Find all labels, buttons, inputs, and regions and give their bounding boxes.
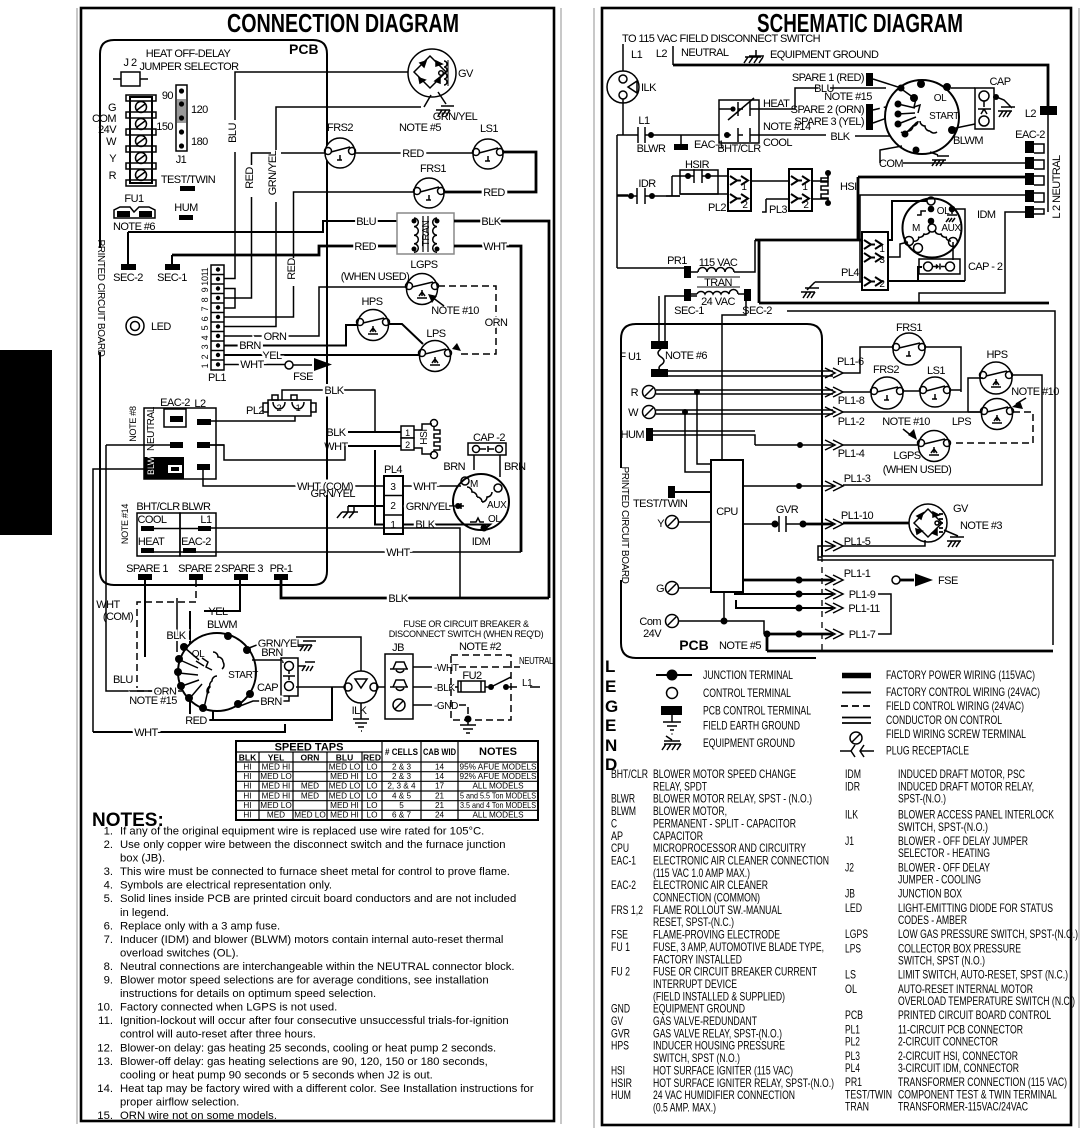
bracket PL1-9 to PL1-7: [878, 594, 891, 634]
svg-text:CAP: CAP: [257, 682, 278, 694]
svg-text:AUX: AUX: [941, 223, 961, 234]
svg-text:LPS: LPS: [426, 328, 445, 340]
wire CAP to ILK: [296, 686, 385, 688]
capacitor CAP-2 (left): [443, 432, 526, 477]
FU1 fuse: [113, 193, 155, 233]
inducer motor IDM (left): [453, 474, 509, 548]
transformer TRAN: [397, 213, 454, 254]
svg-text:LPS: LPS: [952, 416, 971, 428]
svg-text:92% AFUE MODELS: 92% AFUE MODELS: [460, 772, 537, 781]
svg-text:PL3: PL3: [769, 204, 787, 216]
jumper J2: [113, 57, 148, 86]
wire WHT BLWM bottom: [93, 724, 285, 739]
svg-text:overload switches (OL).: overload switches (OL).: [120, 947, 239, 959]
svg-text:NOTE #2: NOTE #2: [459, 641, 501, 653]
svg-text:6 & 7: 6 & 7: [392, 811, 412, 820]
svg-text:MED LO: MED LO: [260, 801, 291, 810]
svg-text:WHT: WHT: [134, 727, 158, 739]
svg-text:1: 1: [741, 182, 747, 193]
svg-text:21: 21: [435, 791, 445, 800]
svg-text:FRS2: FRS2: [327, 122, 353, 134]
svg-text:24: 24: [435, 811, 445, 820]
svg-text:Solid lines inside PCB are pri: Solid lines inside PCB are printed circu…: [120, 893, 516, 905]
legend field wiring screw terminal symbol: [850, 732, 862, 744]
pressure switch LPS: [419, 328, 452, 372]
svg-text:4.: 4.: [104, 880, 113, 892]
svg-text:GRN/YEL: GRN/YEL: [311, 488, 356, 500]
svg-text:FU2: FU2: [462, 670, 482, 682]
wire HSI line to pad1: [755, 177, 1025, 240]
svg-text:8: 8: [200, 297, 210, 302]
wire BRN BLWM lower to CAP: [240, 696, 289, 708]
svg-text:TRANSFORMER-115VAC/24VAC: TRANSFORMER-115VAC/24VAC: [898, 1100, 1028, 1114]
svg-text:OL: OL: [488, 514, 501, 525]
svg-text:JB: JB: [392, 642, 404, 654]
svg-text:OVERLOAD TEMPERATURE SWITCH (N: OVERLOAD TEMPERATURE SWITCH (N.C.): [898, 994, 1075, 1008]
PCB outline (left): [100, 40, 327, 585]
svg-text:5 and 5.5 Ton MODELS: 5 and 5.5 Ton MODELS: [460, 791, 536, 800]
svg-text:BLK: BLK: [830, 131, 850, 143]
svg-text:RED: RED: [402, 148, 424, 160]
svg-text:Symbols are electrical represe: Symbols are electrical representation on…: [120, 880, 332, 892]
svg-text:BRN: BRN: [504, 461, 526, 473]
SEC-2 terminal: [113, 232, 143, 284]
pressure switch LGPS: [341, 259, 439, 305]
svg-text:1: 1: [390, 520, 396, 531]
svg-text:120: 120: [191, 104, 208, 116]
wire FRS1 right down: [926, 347, 961, 392]
svg-text:# CELLS: # CELLS: [385, 747, 418, 757]
svg-text:MED LO: MED LO: [329, 791, 360, 800]
svg-text:SWITCH, SPST-(N.O.): SWITCH, SPST-(N.O.): [898, 820, 988, 834]
svg-text:CAP - 2: CAP - 2: [968, 261, 1003, 273]
wire PL1-10 to GV: [843, 522, 909, 525]
svg-text:BLK: BLK: [388, 593, 408, 605]
wire SEC-1 down pair: [659, 296, 697, 342]
wire BLK PL4 pin1 to IDM: [375, 450, 490, 531]
svg-text:24V: 24V: [643, 628, 662, 640]
svg-text:PL2: PL2: [708, 202, 726, 214]
flame rollout switch FRS2: [325, 122, 356, 168]
wire PL1-6 to FRS1: [843, 347, 892, 373]
svg-text:SPARE 2: SPARE 2: [178, 563, 220, 575]
svg-text:MED LO: MED LO: [260, 772, 291, 781]
svg-text:1: 1: [296, 403, 301, 413]
legend equipment ground symbol: [662, 736, 681, 750]
svg-text:1.: 1.: [104, 826, 113, 838]
dashed spare2 to motor: [873, 104, 898, 110]
svg-text:L2: L2: [1025, 108, 1037, 120]
svg-text:HUM: HUM: [621, 429, 645, 441]
screw terminal W: [628, 406, 833, 420]
svg-text:FSE: FSE: [938, 575, 958, 587]
svg-text:1: 1: [405, 428, 410, 438]
svg-text:HI: HI: [243, 811, 251, 820]
wire COM motor to pad2: [879, 146, 1025, 170]
svg-text:JUMPER SELECTOR: JUMPER SELECTOR: [139, 61, 239, 73]
wire L1 pad right: [211, 528, 460, 598]
svg-text:3.: 3.: [104, 866, 113, 878]
svg-text:in legend.: in legend.: [120, 907, 169, 919]
svg-text:5: 5: [399, 801, 404, 810]
svg-text:PL1-3: PL1-3: [844, 473, 871, 485]
svg-text:3-CIRCUIT IDM, CONNECTOR: 3-CIRCUIT IDM, CONNECTOR: [898, 1061, 1019, 1075]
terminal strip body: [126, 95, 156, 186]
switch LPS (right): [952, 399, 1014, 430]
svg-text:OL: OL: [845, 982, 857, 996]
PL1 connector: [200, 265, 226, 384]
GV ground wires: [399, 92, 478, 134]
svg-text:PL1-8: PL1-8: [838, 395, 865, 407]
svg-text:3.5 and 4 Ton MODELS: 3.5 and 4 Ton MODELS: [460, 801, 536, 810]
screw terminal Y: [657, 516, 711, 531]
svg-text:If any of the original equipme: If any of the original equipment wire is…: [120, 826, 484, 838]
svg-text:CONDUCTOR ON CONTROL: CONDUCTOR ON CONTROL: [886, 713, 1002, 727]
svg-text:PL2: PL2: [246, 405, 264, 417]
svg-text:HEAT: HEAT: [763, 98, 790, 110]
J1 heat selector: [156, 85, 208, 166]
SEC-1 terminal: [157, 255, 187, 284]
svg-text:2: 2: [390, 501, 396, 512]
svg-text:L: L: [605, 657, 615, 676]
svg-text:NEUTRAL: NEUTRAL: [146, 406, 157, 451]
svg-text:PCB: PCB: [679, 637, 709, 653]
svg-text:R: R: [109, 170, 117, 182]
svg-text:FIELD CONTROL WIRING (24VAC): FIELD CONTROL WIRING (24VAC): [886, 699, 1024, 713]
wire HPS left to LPS: [968, 378, 983, 412]
capacitor CAP (left): [257, 658, 315, 696]
svg-text:Inducer (IDM) and blower (BLWM: Inducer (IDM) and blower (BLWM) motors c…: [120, 934, 503, 946]
svg-text:-GND: -GND: [434, 701, 458, 712]
svg-text:11.: 11.: [98, 1015, 113, 1027]
wire PL1-9: [735, 591, 833, 598]
black index tab: [0, 350, 52, 535]
svg-text:FU 2: FU 2: [611, 965, 630, 979]
wire BLK JB fuse FU2: [413, 670, 540, 694]
relay contact BLWR (right): [617, 127, 666, 155]
svg-text:LIMIT SWITCH, AUTO-RESET, SPST: LIMIT SWITCH, AUTO-RESET, SPST (N.C.): [898, 968, 1068, 982]
svg-text:PL1-2: PL1-2: [838, 416, 865, 428]
wire FU1 to PL1-6 double: [668, 371, 833, 376]
svg-text:PL4: PL4: [845, 1061, 860, 1075]
wire GND JB: [413, 701, 476, 737]
pressure switch HPS: [357, 296, 390, 341]
svg-text:EAC-2: EAC-2: [611, 878, 636, 892]
svg-text:FIELD WIRING SCREW TERMINAL: FIELD WIRING SCREW TERMINAL: [886, 727, 1026, 741]
svg-text:FUSE OR CIRCUIT BREAKER &: FUSE OR CIRCUIT BREAKER &: [403, 619, 529, 629]
inducer motor IDM (right): [903, 197, 996, 258]
svg-text:10.: 10.: [97, 1002, 113, 1014]
svg-text:(WHEN USED): (WHEN USED): [341, 271, 410, 283]
svg-text:2 & 3: 2 & 3: [392, 772, 412, 781]
wire BLK to HSI 1: [326, 427, 401, 439]
svg-text:NEUTRAL: NEUTRAL: [681, 47, 729, 59]
wire WHT pin1 to FSE: [224, 359, 285, 371]
svg-text:9.: 9.: [104, 975, 113, 987]
left panel border: [81, 8, 554, 1121]
svg-text:BRN: BRN: [260, 696, 282, 708]
CAP to ground: [994, 96, 1015, 117]
branch W to CPU: [685, 412, 711, 472]
svg-text:HSIR: HSIR: [685, 159, 710, 171]
svg-text:8.: 8.: [104, 961, 113, 973]
svg-text:7: 7: [200, 306, 210, 311]
wire PL1-7 bottom bus: [767, 634, 1053, 651]
svg-text:BHT/CLR: BHT/CLR: [611, 767, 648, 781]
svg-text:J2: J2: [845, 860, 854, 874]
svg-text:FIELD EARTH GROUND: FIELD EARTH GROUND: [703, 719, 800, 733]
svg-text:LGPS: LGPS: [893, 450, 920, 462]
svg-text:TRAN: TRAN: [704, 277, 732, 289]
wire BLK long PR-1 to TRAN: [281, 580, 549, 605]
svg-text:Use only copper wire between t: Use only copper wire between the disconn…: [120, 839, 506, 851]
svg-text:ALL MODELS: ALL MODELS: [472, 811, 524, 820]
wire thick to PL4: [758, 240, 761, 303]
svg-text:WHT: WHT: [240, 359, 264, 371]
svg-text:BLK: BLK: [166, 630, 186, 642]
svg-text:BLWM: BLWM: [207, 619, 237, 631]
svg-text:LED: LED: [845, 901, 862, 915]
svg-text:LO: LO: [367, 801, 378, 810]
svg-text:LO: LO: [367, 811, 378, 820]
svg-text:PL1-11: PL1-11: [848, 603, 880, 615]
svg-text:15.: 15.: [97, 1110, 113, 1122]
svg-text:box (JB).: box (JB).: [120, 853, 165, 865]
svg-text:TRAN: TRAN: [845, 1100, 869, 1114]
svg-text:G: G: [605, 697, 618, 716]
svg-text:IDM: IDM: [977, 209, 996, 221]
transformer primary PR1: [667, 240, 755, 289]
svg-text:START: START: [228, 670, 258, 681]
svg-text:L2: L2: [656, 48, 668, 60]
svg-text:CAP -2: CAP -2: [473, 432, 505, 444]
svg-text:RED: RED: [244, 167, 256, 189]
svg-text:LS1: LS1: [480, 123, 498, 135]
svg-text:GRN/YEL: GRN/YEL: [267, 150, 279, 195]
wire PL1-2 to LPS: [843, 411, 981, 413]
wire WHT(COM) label lower left: [96, 599, 133, 623]
dashed wire ORN SPARE2: [129, 580, 196, 707]
svg-text:180: 180: [191, 136, 208, 148]
svg-text:IDR: IDR: [638, 178, 656, 190]
svg-text:START: START: [929, 111, 959, 122]
wire HPS to LPS: [389, 324, 423, 344]
svg-text:FU1: FU1: [124, 193, 144, 205]
svg-text:Heat tap may be factory wired: Heat tap may be factory wired with a dif…: [120, 1083, 534, 1095]
svg-text:HUM: HUM: [611, 1088, 631, 1102]
svg-text:NOTE #15: NOTE #15: [129, 695, 177, 707]
wire GRN/YEL BLWM: [249, 638, 316, 651]
wire PL4 pin1 to IDM top: [887, 201, 927, 240]
svg-text:FRS 1,2: FRS 1,2: [611, 903, 643, 917]
svg-text:PRINTED CIRCUIT BOARD: PRINTED CIRCUIT BOARD: [619, 467, 630, 584]
fuse text block: [389, 619, 544, 653]
legend factory power wiring symbol: [842, 673, 871, 679]
svg-text:M: M: [912, 223, 920, 234]
wire PL4 pin2 to CAP-2: [887, 267, 965, 281]
svg-text:2: 2: [742, 200, 748, 211]
relay box BHT/CLR: [120, 501, 180, 556]
svg-text:BLK: BLK: [324, 385, 344, 397]
svg-text:JUNCTION TERMINAL: JUNCTION TERMINAL: [703, 668, 793, 682]
screw terminal G: [656, 582, 711, 596]
svg-text:J1: J1: [845, 834, 854, 848]
svg-text:LOW GAS PRESSURE SWITCH, SPST-: LOW GAS PRESSURE SWITCH, SPST-(N.O.): [898, 927, 1078, 941]
legend conductor on control symbol: [842, 718, 871, 724]
svg-text:-WHT: -WHT: [434, 663, 459, 674]
wire PR1 left: [617, 267, 684, 269]
wire OL to pin2 line: [952, 209, 965, 281]
flame electrode FSE: [285, 358, 332, 383]
svg-text:NOTE #5: NOTE #5: [399, 122, 441, 134]
relay BHT/CLR (right): [717, 98, 811, 155]
wire YEL SPARE3: [190, 580, 240, 720]
svg-text:2: 2: [879, 279, 885, 290]
wire BLU label: [113, 674, 133, 686]
svg-text:2: 2: [200, 354, 210, 359]
wire thick bottom bus: [759, 302, 1049, 305]
svg-text:HSI: HSI: [419, 429, 430, 444]
connector PL2: [246, 395, 316, 417]
wire RED FRS2 to pin10: [224, 153, 326, 298]
svg-text:Neutral connections are interc: Neutral connections are interchangeable …: [120, 961, 515, 973]
svg-text:CONTROL TERMINAL: CONTROL TERMINAL: [703, 686, 791, 700]
svg-text:PL1: PL1: [208, 372, 226, 384]
legend factory control wiring symbol: [842, 692, 871, 694]
svg-text:YEL: YEL: [262, 350, 282, 362]
svg-text:14: 14: [435, 762, 445, 771]
svg-text:BLU: BLU: [227, 123, 239, 143]
plug receptacles PL1-x: [825, 356, 880, 641]
svg-text:TO 115 VAC FIELD DISCONNECT SW: TO 115 VAC FIELD DISCONNECT SWITCH: [622, 33, 821, 45]
wire pin3 to IDM: [887, 242, 908, 257]
svg-text:EAC-2: EAC-2: [160, 397, 190, 409]
svg-text:EAC-1: EAC-1: [611, 854, 636, 868]
svg-text:CONNECTION DIAGRAM: CONNECTION DIAGRAM: [227, 8, 459, 38]
svg-text:14: 14: [435, 772, 445, 781]
svg-text:LS: LS: [845, 968, 856, 982]
capacitor CAP (right): [951, 76, 1011, 129]
wire HPS right to PL1-3: [843, 375, 1042, 485]
svg-text:Blower-off delay: gas heating: Blower-off delay: gas heating selections…: [120, 1056, 488, 1068]
svg-text:PCB CONTROL TERMINAL: PCB CONTROL TERMINAL: [703, 704, 811, 718]
svg-text:95% AFUE MODELS: 95% AFUE MODELS: [460, 762, 537, 771]
svg-text:90: 90: [162, 90, 174, 102]
svg-text:MED LO: MED LO: [294, 811, 325, 820]
svg-text:IDM: IDM: [472, 536, 491, 548]
svg-text:L1: L1: [631, 49, 643, 61]
svg-text:NOTE #8: NOTE #8: [128, 406, 138, 442]
svg-text:OL: OL: [934, 93, 947, 104]
speed taps table: [236, 741, 538, 820]
dashed ORN LGPS to LPS: [438, 286, 508, 354]
terminal strip G COM24V W Y R: [92, 102, 117, 182]
svg-text:ORN: ORN: [264, 331, 287, 343]
blower motor BLWM: [174, 619, 258, 712]
svg-text:J1: J1: [176, 154, 187, 166]
wire YEL pin2 to LPS: [224, 350, 419, 362]
svg-text:10: 10: [200, 276, 210, 286]
wire RED FRS1 to pin7: [224, 192, 415, 317]
svg-text:LO: LO: [367, 762, 378, 771]
legend pcb control terminal symbol: [661, 706, 682, 715]
svg-text:Ignition-lockout will occur af: Ignition-lockout will occur after four c…: [120, 1015, 509, 1027]
L2 pad: [1025, 106, 1057, 120]
svg-text:PL1-10: PL1-10: [841, 510, 874, 522]
svg-text:NOTE #10: NOTE #10: [1011, 386, 1059, 398]
svg-text:WHT: WHT: [483, 241, 507, 253]
svg-text:N: N: [605, 736, 617, 755]
svg-text:LO: LO: [367, 782, 378, 791]
igniter HSI (right): [812, 170, 857, 206]
svg-text:HEAT OFF-DELAY: HEAT OFF-DELAY: [146, 48, 232, 60]
switch LS1 (right): [920, 365, 951, 407]
switch HPS (right): [980, 349, 1013, 394]
screw terminals: [136, 102, 147, 181]
svg-text:24 VAC: 24 VAC: [701, 296, 735, 308]
svg-text:PR1: PR1: [667, 255, 687, 267]
blower motor BLWM (right): [885, 80, 983, 154]
svg-text:L1: L1: [200, 514, 212, 526]
svg-text:G: G: [656, 583, 664, 595]
svg-text:HUM: HUM: [174, 202, 198, 214]
svg-text:24V: 24V: [98, 124, 117, 136]
svg-text:2.: 2.: [104, 839, 113, 851]
svg-text:FRS1: FRS1: [420, 163, 446, 175]
interlock switch ILK (right): [607, 71, 657, 103]
svg-text:(WHEN USED): (WHEN USED): [883, 464, 952, 476]
wire neutral mid pads: [106, 445, 345, 460]
svg-text:TEST/TWIN: TEST/TWIN: [633, 498, 688, 510]
svg-text:MED HI: MED HI: [330, 801, 359, 810]
svg-text:HSI: HSI: [840, 181, 857, 193]
svg-text:BLU: BLU: [356, 216, 376, 228]
svg-text:GVR: GVR: [776, 504, 799, 516]
wire GRN/YEL to PL4 pin2 with ground: [311, 488, 384, 518]
svg-text:Com: Com: [639, 616, 661, 628]
spare terminals SPARE1 SPARE2 SPARE3 PR-1: [126, 563, 293, 580]
svg-text:LO: LO: [367, 772, 378, 781]
svg-text:RED: RED: [363, 753, 381, 763]
wire BLK COOL to motor: [759, 124, 898, 143]
svg-text:PL1-1: PL1-1: [844, 568, 871, 580]
svg-text:2: 2: [803, 200, 809, 211]
wire BRN BLWM to CAP: [252, 647, 283, 663]
svg-text:PL1-9: PL1-9: [849, 589, 876, 601]
connector PL4 (left): [384, 464, 403, 534]
svg-text:PRINTED CIRCUIT BOARD CONTROL: PRINTED CIRCUIT BOARD CONTROL: [898, 1008, 1051, 1022]
svg-text:RED: RED: [354, 241, 376, 253]
transformer secondary 24VAC: [674, 289, 772, 317]
screw terminal R: [631, 386, 833, 400]
legend junction terminal symbol: [656, 670, 692, 681]
HSI connector boxes: [401, 426, 414, 450]
wire WHT COM to PL4 pin3: [203, 470, 384, 493]
wire BLW pad left: [93, 469, 168, 732]
relay contact IDR: [617, 178, 666, 204]
svg-text:2 & 3: 2 & 3: [392, 762, 412, 771]
svg-text:(COM): (COM): [103, 611, 133, 623]
svg-text:BLWR: BLWR: [182, 501, 211, 513]
wire spare3 to motor: [873, 114, 898, 123]
svg-text:SEC-1: SEC-1: [157, 272, 187, 284]
wire L2 neutral bus top: [673, 65, 1048, 108]
svg-text:NOTE #6: NOTE #6: [665, 350, 707, 362]
svg-text:1: 1: [200, 363, 210, 368]
svg-text:BRN: BRN: [261, 647, 283, 659]
svg-text:JUNCTION BOX: JUNCTION BOX: [898, 887, 962, 901]
svg-text:E: E: [605, 716, 616, 735]
